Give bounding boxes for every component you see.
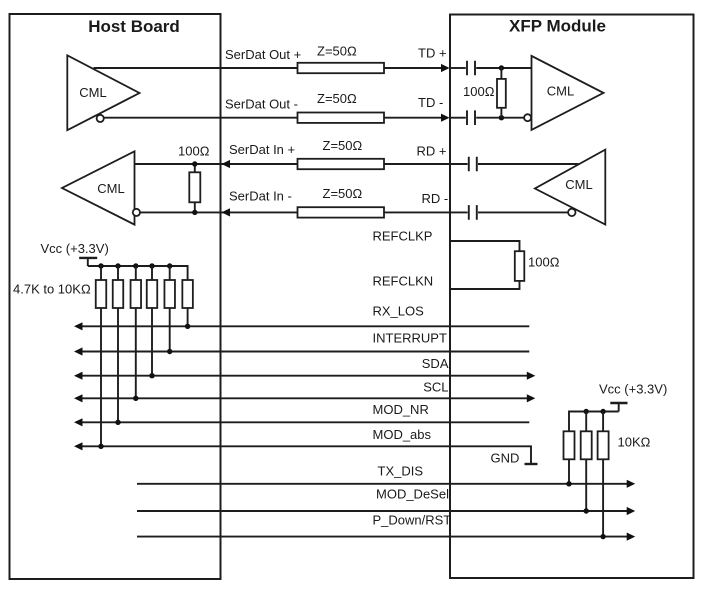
op-amp U2 XFP CML receiver [532,56,604,130]
label 100 ohm (R1) [463,84,495,99]
U1 label CML [79,85,106,100]
power Vcc (+3.3V) label module side [599,382,667,397]
wire SerDat In + from U3 to Z3 [135,163,298,165]
wire INTERRUPT line [80,351,529,353]
node SDA pull-up junction dot [149,373,154,378]
op-amp U3 host CML receiver [62,151,135,224]
wire Vcc stub and pull-up bus module side [569,403,619,431]
svg-text:SCL: SCL [423,380,448,395]
label TX_DIS [378,463,424,478]
node TD+ junction dot [499,65,504,70]
U3 label CML [97,181,124,196]
label MOD_abs [373,427,432,442]
svg-text:CML: CML [565,177,592,192]
arrowhead MOD_DeSel into module [627,507,636,515]
svg-text:100Ω: 100Ω [463,84,495,99]
label SerDat Out - [225,96,298,111]
transmission line Z2 Z=50 ohm on SerDat Out - [298,113,385,123]
node P_Down/RST pull-up junction dot [600,534,605,539]
resistor R12 pull-up P_Down/RST [598,412,609,537]
host board title [88,17,180,36]
svg-text:Vcc (+3.3V): Vcc (+3.3V) [599,382,667,397]
node module bus dot R12 [600,409,605,414]
svg-text:SerDat Out -: SerDat Out - [225,96,298,111]
label 10K ohm pull-ups [618,434,651,449]
arrowhead P_Down/RST into module [627,533,636,541]
svg-text:Z=50Ω: Z=50Ω [323,138,363,153]
XFP module title [509,16,606,35]
svg-text:100Ω: 100Ω [528,254,560,269]
power Vcc bar symbol module side [610,402,627,404]
resistor R9 pull-up RX_LOS [182,280,193,326]
transmission line Z1 Z=50 ohm on SerDat Out + [298,63,385,73]
label SCL [423,380,448,395]
svg-text:RD +: RD + [417,144,447,159]
wire SerDat Out - from U1 bubble to XFP edge [104,117,442,119]
transmission line Z4 Z=50 ohm on SerDat In - [298,207,385,217]
transmission line Z3 Z=50 ohm on SerDat In + [298,159,385,169]
wire TD- cap C2 to U2 bubble [476,117,524,119]
node SCL pull-up junction dot [133,396,138,401]
svg-text:SerDat In +: SerDat In + [229,142,295,157]
op-amp U4 XFP CML TX driver [535,150,605,225]
label TD + [418,46,447,61]
node RX_LOS pull-up junction dot [185,324,190,329]
node R2 top junction dot [192,161,197,166]
wire RX_LOS line [80,325,529,327]
svg-text:RD -: RD - [422,191,449,206]
svg-text:CML: CML [97,181,124,196]
svg-text:SerDat In -: SerDat In - [229,188,292,203]
op-amp U1 host CML TX driver [67,55,139,130]
label GND [491,451,520,466]
node TD- junction dot [499,115,504,120]
label 100 ohm (R2) [178,143,210,158]
wire MOD_abs line to module ground [80,446,531,464]
resistor R10 pull-up TX_DIS [564,431,575,484]
arrowhead SerDat In- into host board [222,208,231,216]
svg-text:REFCLKP: REFCLKP [373,228,433,243]
wire SCL line [80,397,528,399]
wire REFCLKN from XFP edge [450,281,520,289]
resistor R6 pull-up SCL [131,266,142,398]
label RX_LOS [373,303,425,318]
capacitor C2 on TD- [467,110,475,125]
svg-text:MOD_DeSel: MOD_DeSel [376,486,449,501]
svg-text:SerDat Out +: SerDat Out + [225,47,301,62]
svg-text:REFCLKN: REFCLKN [373,274,434,289]
U3 inverting input bubble [133,209,140,216]
arrowhead RX_LOS into host [74,322,83,330]
wire RD+ cap C3 to U4 output [478,163,579,165]
label 100 ohm (R3) [528,254,560,269]
power Vcc (+3.3V) label host side [41,241,109,256]
resistor R8 pull-up INTERRUPT [164,266,175,352]
label REFCLKN [373,274,434,289]
XFP module box [450,15,694,579]
svg-text:Z=50Ω: Z=50Ω [317,44,357,59]
svg-text:10KΩ: 10KΩ [618,434,651,449]
label MOD_NR [373,402,429,417]
node module bus dot R11 [584,409,589,414]
node bus dot R5 [115,263,120,268]
node bus dot R6 [133,263,138,268]
U1 inverting output bubble [97,115,104,122]
node TX_DIS pull-up junction dot [566,481,571,486]
arrowhead TD- into XFP [441,114,450,122]
label RD + [417,144,447,159]
svg-text:MOD_NR: MOD_NR [373,402,429,417]
wire RD+ XFP edge to cap C3 [450,163,468,165]
label Z=50 ohm (Z2) [317,91,357,106]
svg-text:TD +: TD + [418,46,447,61]
resistor R7 pull-up SDA [147,266,158,376]
resistor R1 100 ohm TD termination [497,68,506,118]
label INTERRUPT [373,331,447,346]
node INTERRUPT pull-up junction dot [167,349,172,354]
arrowhead SerDat In+ into host board [222,160,231,168]
svg-text:CML: CML [547,83,574,98]
arrowhead SDA into host [74,372,83,380]
capacitor C1 on TD+ [467,61,475,76]
wire SDA line [80,375,528,377]
label SerDat In - [229,188,292,203]
wire SerDat In - from U3 bubble to Z4 [140,211,298,213]
arrowhead TX_DIS into module [627,480,636,488]
U4 label CML [565,177,592,192]
svg-text:INTERRUPT: INTERRUPT [373,331,447,346]
arrowhead SCL into host [74,394,83,402]
wire MOD_NR line [80,421,529,423]
U4 inverting output bubble [568,209,575,216]
label MOD_DeSel [376,486,449,501]
wire TX_DIS line [137,483,627,485]
wire RD- XFP edge to cap C4 [450,211,468,213]
wire TD+ cap C1 to U2 input [476,67,531,69]
arrowhead MOD_abs into host [74,442,83,450]
wire MOD_DeSel line [137,510,627,512]
label P_Down/RST [373,512,452,527]
resistor R11 pull-up MOD_DeSel [581,412,592,512]
node bus dot R4 [98,263,103,268]
svg-text:Z=50Ω: Z=50Ω [317,91,357,106]
U2 inverting input bubble [524,114,531,121]
node R2 bottom junction dot [192,210,197,215]
label REFCLKP [373,228,433,243]
host board box [10,14,221,579]
capacitor C4 on RD- [469,205,477,220]
label Z=50 ohm (Z4) [323,186,363,201]
svg-text:Vcc (+3.3V): Vcc (+3.3V) [41,241,109,256]
label RD - [422,191,449,206]
resistor R3 100 ohm REFCLK termination [515,251,525,281]
arrowhead SDA into module [527,372,536,380]
label SDA [422,356,449,371]
node bus dot R8 [167,263,172,268]
svg-text:MOD_abs: MOD_abs [373,427,432,442]
wire TD+ XFP edge to coupling cap C1 [450,67,466,69]
svg-text:4.7K to 10KΩ: 4.7K to 10KΩ [13,282,91,297]
svg-text:Z=50Ω: Z=50Ω [323,186,363,201]
svg-text:SDA: SDA [422,356,449,371]
svg-text:GND: GND [491,451,520,466]
label 4.7K to 10K ohm pull-ups [13,282,91,297]
label TD - [418,95,443,110]
resistor R2 100 ohm SerDat In termination [189,164,200,212]
wire RD- Z4 to XFP edge [384,211,450,213]
svg-text:TD -: TD - [418,95,443,110]
wire RD- cap C4 to U4 bubble [478,211,568,213]
wire SerDat Out + from U1 to XFP edge [94,67,442,69]
arrowhead SCL into module [527,394,536,402]
svg-text:P_Down/RST: P_Down/RST [373,512,452,527]
wire P_Down/RST line [137,536,627,538]
wire TD- XFP edge to coupling cap C2 [450,117,466,119]
arrowhead MOD_NR into host [74,418,83,426]
svg-text:100Ω: 100Ω [178,143,210,158]
svg-text:TX_DIS: TX_DIS [378,463,424,478]
svg-text:CML: CML [79,85,106,100]
label Z=50 ohm (Z3) [323,138,363,153]
wire REFCLKP from XFP edge [450,241,520,251]
wire Vcc stub and pull-up bus host side [88,258,188,280]
node MOD_DeSel pull-up junction dot [584,508,589,513]
node MOD_abs pull-up junction dot [98,444,103,449]
ground bar symbol [525,463,538,465]
power Vcc bar symbol host side [79,257,97,259]
label SerDat In + [229,142,295,157]
svg-text:XFP Module: XFP Module [509,16,606,35]
U2 label CML [547,83,574,98]
resistor R5 pull-up MOD_NR [113,266,124,422]
label SerDat Out + [225,47,301,62]
wire RD+ Z3 to XFP edge [384,163,450,165]
node MOD_NR pull-up junction dot [115,420,120,425]
arrowhead TD+ into XFP [441,64,450,72]
arrowhead INTERRUPT into host [74,347,83,355]
node bus dot R7 [149,263,154,268]
capacitor C3 on RD+ [469,157,477,172]
label Z=50 ohm (Z1) [317,44,357,59]
resistor R4 pull-up MOD_abs [96,266,107,446]
svg-text:RX_LOS: RX_LOS [373,303,425,318]
svg-text:Host Board: Host Board [88,17,180,36]
